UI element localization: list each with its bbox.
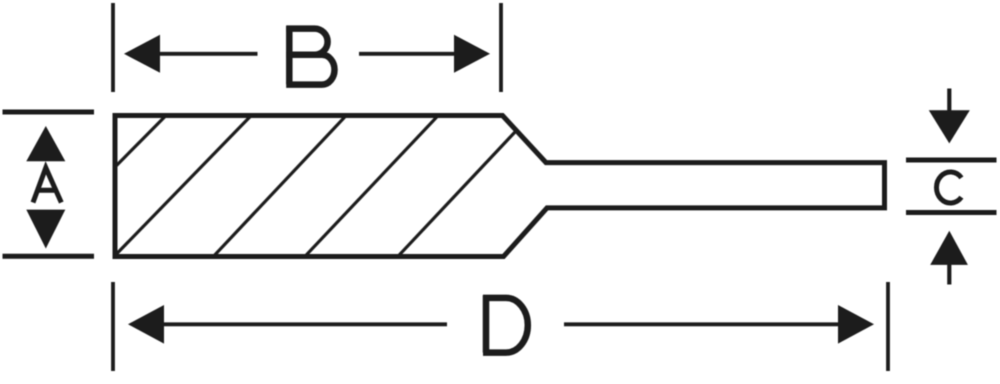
dimension A up arrowhead <box>26 126 65 161</box>
dimension C down arrowhead <box>929 110 970 143</box>
dimension B right extension tick <box>499 3 503 92</box>
label A <box>33 168 61 203</box>
dimension C bottom extension tick <box>906 210 997 215</box>
hatch line 4 <box>305 116 438 257</box>
dimension D left arrow shaft <box>162 322 447 326</box>
dimension D right arrow shaft <box>564 322 840 326</box>
dimension C top extension tick <box>906 158 997 163</box>
dimension D right extension tick <box>886 282 890 371</box>
dimension D left extension tick <box>111 282 115 371</box>
hatch line 3 <box>214 116 347 257</box>
label D <box>483 295 528 352</box>
hatch line 5 <box>398 131 516 257</box>
dimension B right arrowhead <box>454 35 490 73</box>
hatch line 1 <box>116 116 166 167</box>
dimension C up arrow shaft <box>947 261 951 285</box>
dimension B left arrowhead <box>124 35 160 73</box>
dimension C up arrowhead <box>930 231 968 265</box>
dimension B right arrow shaft <box>359 52 458 56</box>
dimension D left arrowhead <box>128 305 164 344</box>
dimension A down arrowhead <box>26 210 65 249</box>
dimension B left arrow shaft <box>158 52 258 56</box>
burr head outline <box>115 116 885 257</box>
dimension A top extension tick <box>3 110 95 115</box>
hatch line 2 <box>116 116 252 255</box>
dimension C down arrow shaft <box>947 89 951 113</box>
dimension A bottom extension tick <box>3 254 95 259</box>
label C <box>936 172 961 203</box>
dimension B left extension tick <box>111 3 115 92</box>
dimension D right arrowhead <box>838 305 874 344</box>
label B <box>286 26 334 85</box>
